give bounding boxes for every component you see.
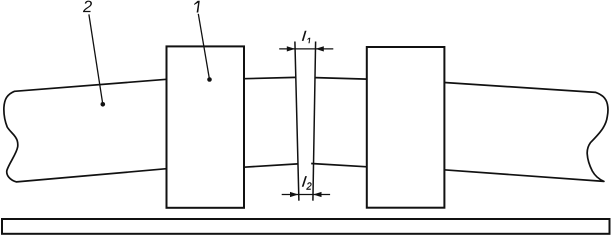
clamp block 1 (left) xyxy=(167,46,245,207)
leader line for label 2 xyxy=(89,14,103,104)
dimension label l2 subscript xyxy=(306,182,311,189)
dimension label l1 subscript xyxy=(307,38,310,44)
leader dot for label 1 xyxy=(207,77,212,82)
dimension l2 left arrowhead xyxy=(290,192,298,197)
bar 2 right-middle section bottom edge xyxy=(311,164,367,167)
leader line for label 1 xyxy=(198,14,209,80)
dimension l1 left arrowhead xyxy=(287,46,295,51)
clamp block (right) xyxy=(367,47,445,208)
base plate xyxy=(2,219,610,234)
dimension l1 line xyxy=(279,48,333,50)
bar 2 right section (with break line) xyxy=(444,83,608,182)
dimension l2 line xyxy=(282,194,330,196)
dimension label l2 xyxy=(302,176,307,187)
callout label 2 xyxy=(83,1,92,13)
bar end face / extension line (left of gap) xyxy=(295,42,299,201)
leader dot for label 2 xyxy=(101,102,106,107)
bar end face / extension line (right of gap) xyxy=(313,42,316,201)
callout label 1 xyxy=(194,1,200,13)
dimension l1 right arrowhead xyxy=(315,46,323,51)
bar 2 left-middle section bottom edge xyxy=(244,164,298,167)
bar 2 left section (with break line) xyxy=(4,79,167,182)
dimension label l1 xyxy=(302,31,307,41)
bar 2 left-middle section top edge xyxy=(244,77,296,78)
bar 2 right-middle section top edge xyxy=(316,78,368,80)
dimension l2 right arrowhead xyxy=(313,192,321,197)
